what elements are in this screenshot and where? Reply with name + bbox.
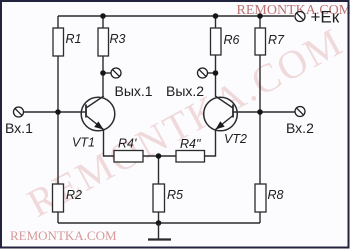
svg-text:R7: R7	[268, 33, 285, 47]
ground	[148, 223, 171, 240]
node input2 / divider	[257, 109, 263, 115]
node ground junction	[156, 220, 162, 226]
resistor R8	[255, 184, 266, 212]
svg-text:R5: R5	[167, 188, 183, 202]
resistor R4'	[114, 151, 143, 163]
svg-text:Вых.2: Вых.2	[166, 83, 204, 99]
svg-text:R2: R2	[66, 188, 82, 202]
node R4 R5 junction	[156, 153, 162, 159]
svg-text:VT2: VT2	[224, 132, 247, 146]
svg-text:R3: R3	[110, 32, 126, 46]
resistor R7	[255, 28, 266, 55]
resistor R3	[98, 28, 109, 56]
wire input 2 lead	[233, 111, 295, 113]
transistor VT1	[81, 96, 115, 131]
svg-text:R4': R4'	[118, 137, 137, 151]
resistor R5	[153, 184, 165, 212]
wire R5 vertical	[158, 156, 160, 223]
terminal output 2	[198, 68, 208, 78]
wire R4' to R4" junction	[143, 155, 176, 157]
wire R1-R2 vertical	[57, 16, 59, 223]
wire bottom rail	[58, 222, 260, 224]
svg-text:R4": R4"	[180, 137, 201, 151]
wire VT1 emitter to R4'	[104, 130, 115, 156]
transistor VT2	[204, 96, 238, 131]
wire R4" to VT2 emitter	[205, 130, 216, 156]
watermark diagonal REMONTKA.COM	[20, 18, 350, 225]
node output 1	[100, 70, 106, 76]
resistor R2	[53, 184, 64, 212]
svg-text:Вх.2: Вх.2	[286, 120, 314, 136]
terminal input 1	[14, 107, 24, 117]
node input1 / divider	[55, 109, 61, 115]
terminal output 1	[111, 68, 121, 78]
svg-text:REMONTKA.COM: REMONTKA.COM	[10, 228, 117, 243]
wire R6 branch	[215, 16, 217, 97]
svg-text:Вх.1: Вх.1	[5, 120, 33, 136]
svg-text:R8: R8	[268, 188, 284, 202]
wire output 1 stub	[103, 72, 111, 74]
terminal +Ek	[295, 12, 305, 22]
node top rail / R3	[100, 13, 106, 19]
svg-text:R1: R1	[66, 32, 82, 46]
wire input 1 lead	[24, 111, 87, 113]
wire top rail	[58, 15, 294, 17]
node top rail / R6	[213, 13, 219, 19]
svg-text:Вых.1: Вых.1	[115, 83, 153, 99]
terminal input 2	[295, 107, 305, 117]
resistor R6	[211, 28, 222, 55]
node output 2	[213, 70, 219, 76]
wire R3 branch	[102, 16, 104, 97]
resistor R4"	[176, 151, 205, 163]
node top rail / R7	[257, 13, 263, 19]
svg-text:+Ек: +Ек	[311, 8, 340, 27]
resistor R1	[53, 28, 64, 56]
svg-text:R6: R6	[224, 33, 240, 47]
wire R7-R8 vertical	[259, 16, 261, 223]
svg-text:VT1: VT1	[72, 136, 95, 150]
wire output 2 stub	[208, 72, 216, 74]
